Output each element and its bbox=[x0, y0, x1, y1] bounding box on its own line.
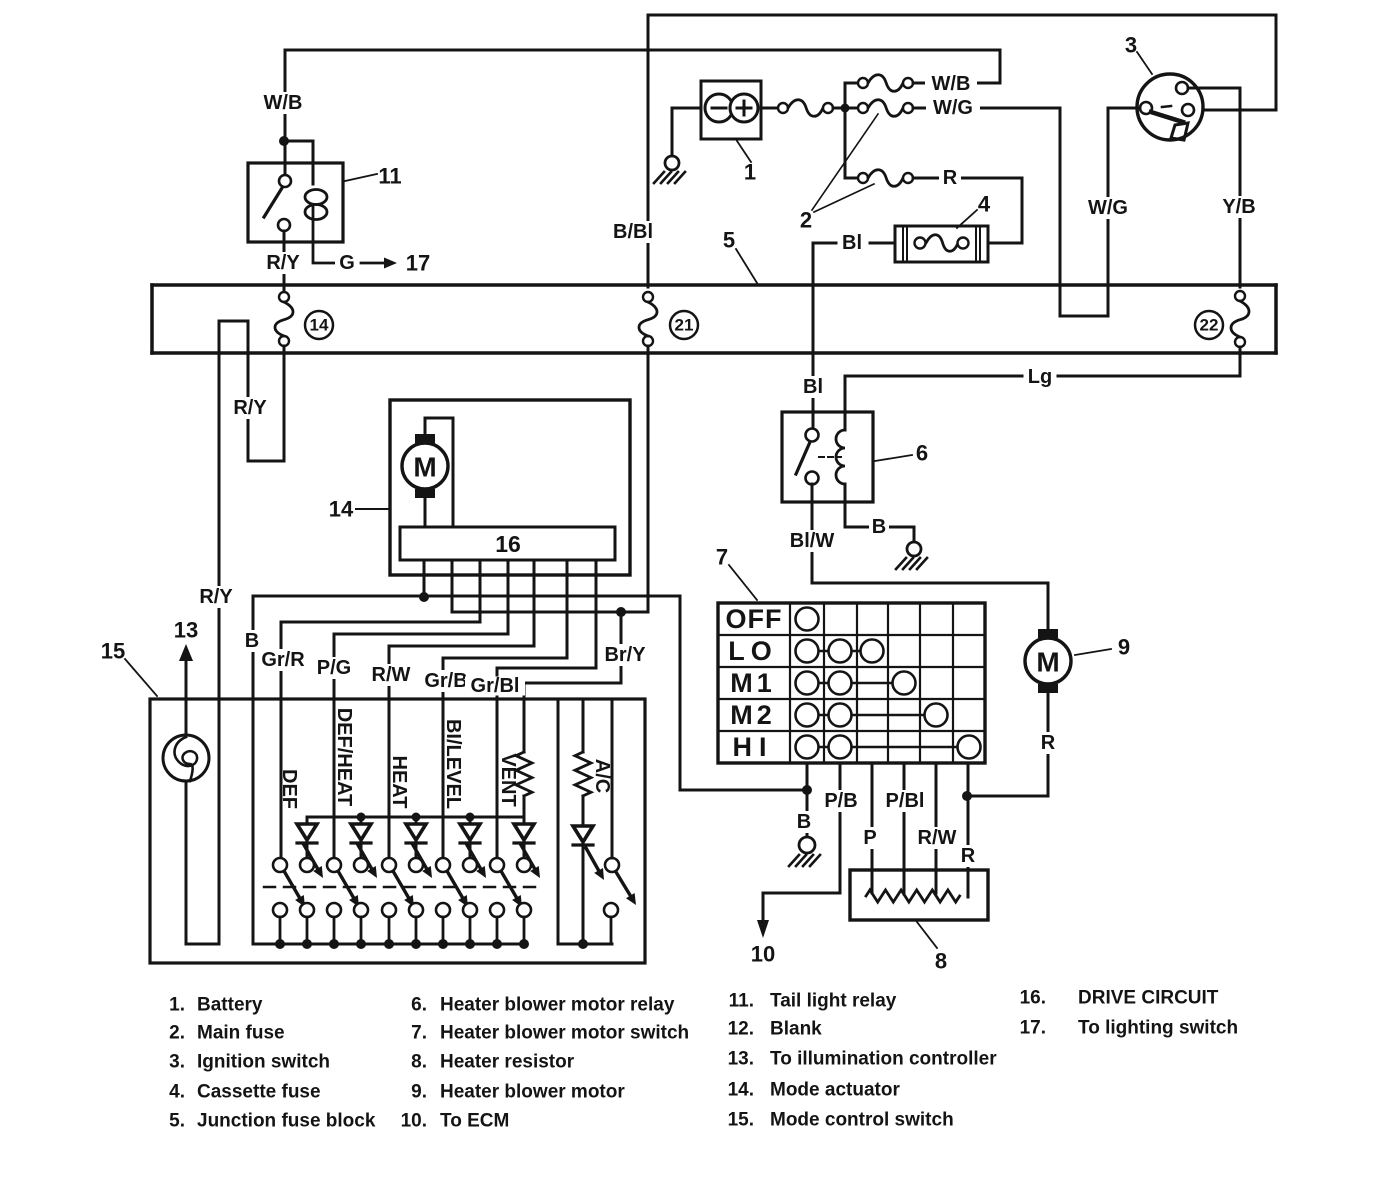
svg-text:Battery: Battery bbox=[197, 995, 263, 1016]
svg-text:2: 2 bbox=[800, 208, 812, 233]
svg-text:A/C: A/C bbox=[591, 759, 613, 793]
svg-text:HEAT: HEAT bbox=[388, 756, 410, 809]
svg-text:R: R bbox=[961, 845, 976, 867]
svg-text:W/G: W/G bbox=[1088, 197, 1128, 219]
svg-text:5: 5 bbox=[723, 228, 735, 253]
svg-text:7: 7 bbox=[716, 545, 728, 570]
svg-text:Mode control switch: Mode control switch bbox=[770, 1110, 954, 1131]
svg-text:Heater blower motor: Heater blower motor bbox=[440, 1082, 625, 1103]
svg-text:14: 14 bbox=[329, 497, 354, 522]
svg-text:Heater blower motor relay: Heater blower motor relay bbox=[440, 995, 675, 1016]
svg-text:M: M bbox=[413, 452, 436, 483]
svg-text:LO: LO bbox=[728, 636, 778, 666]
svg-text:W/B: W/B bbox=[264, 92, 303, 114]
svg-text:Gr/R: Gr/R bbox=[261, 649, 305, 671]
svg-text:W/B: W/B bbox=[932, 73, 971, 95]
svg-text:DEF/HEAT: DEF/HEAT bbox=[333, 708, 355, 807]
svg-text:1.: 1. bbox=[169, 995, 185, 1016]
svg-text:Ignition switch: Ignition switch bbox=[197, 1052, 330, 1073]
svg-text:5.: 5. bbox=[169, 1111, 185, 1132]
svg-text:R/Y: R/Y bbox=[233, 397, 267, 419]
svg-text:14.: 14. bbox=[728, 1080, 754, 1101]
svg-text:3: 3 bbox=[1125, 33, 1137, 58]
svg-text:1: 1 bbox=[744, 160, 756, 185]
svg-text:R/Y: R/Y bbox=[266, 252, 300, 274]
svg-text:HI: HI bbox=[733, 732, 774, 762]
svg-text:Br/Y: Br/Y bbox=[604, 644, 646, 666]
svg-text:B: B bbox=[872, 516, 886, 538]
svg-text:R: R bbox=[1041, 732, 1056, 754]
svg-text:B/Bl: B/Bl bbox=[613, 221, 653, 243]
svg-text:14: 14 bbox=[310, 316, 329, 335]
svg-text:4: 4 bbox=[978, 192, 991, 217]
svg-text:6: 6 bbox=[916, 441, 928, 466]
svg-text:13.: 13. bbox=[728, 1049, 754, 1070]
svg-text:3.: 3. bbox=[169, 1052, 185, 1073]
svg-text:11: 11 bbox=[378, 164, 401, 189]
svg-text:10: 10 bbox=[751, 942, 775, 967]
svg-text:R/W: R/W bbox=[372, 664, 411, 686]
svg-text:G: G bbox=[339, 252, 355, 274]
svg-text:DRIVE CIRCUIT: DRIVE CIRCUIT bbox=[1078, 988, 1219, 1009]
svg-text:Heater blower motor switch: Heater blower motor switch bbox=[440, 1023, 689, 1044]
svg-text:Bl/W: Bl/W bbox=[790, 530, 835, 552]
svg-text:P: P bbox=[863, 827, 876, 849]
svg-text:M1: M1 bbox=[730, 668, 776, 698]
svg-text:17.: 17. bbox=[1020, 1018, 1046, 1039]
svg-text:Y/B: Y/B bbox=[1222, 196, 1255, 218]
svg-text:R/W: R/W bbox=[918, 827, 957, 849]
svg-text:Main fuse: Main fuse bbox=[197, 1023, 285, 1044]
svg-text:Blank: Blank bbox=[770, 1019, 822, 1040]
svg-text:2.: 2. bbox=[169, 1023, 185, 1044]
svg-text:8: 8 bbox=[935, 949, 947, 974]
svg-text:21: 21 bbox=[675, 316, 694, 335]
svg-text:9.: 9. bbox=[411, 1082, 427, 1103]
svg-text:B: B bbox=[245, 630, 259, 652]
svg-text:9: 9 bbox=[1118, 635, 1130, 660]
svg-text:R: R bbox=[943, 167, 958, 189]
svg-text:Gr/Bl: Gr/Bl bbox=[471, 675, 520, 697]
svg-text:Heater resistor: Heater resistor bbox=[440, 1052, 575, 1073]
svg-text:M: M bbox=[1036, 647, 1059, 678]
svg-text:Junction fuse block: Junction fuse block bbox=[197, 1111, 376, 1132]
svg-text:DEF: DEF bbox=[278, 769, 300, 809]
svg-text:16.: 16. bbox=[1020, 988, 1046, 1009]
svg-text:P/B: P/B bbox=[824, 790, 857, 812]
svg-text:BI/LEVEL: BI/LEVEL bbox=[442, 719, 464, 809]
svg-text:17: 17 bbox=[406, 251, 430, 276]
svg-text:11.: 11. bbox=[729, 991, 754, 1012]
svg-text:7.: 7. bbox=[411, 1023, 427, 1044]
svg-text:4.: 4. bbox=[169, 1082, 185, 1103]
svg-text:VENT: VENT bbox=[497, 753, 519, 806]
svg-text:12.: 12. bbox=[728, 1019, 754, 1040]
svg-text:W/G: W/G bbox=[933, 97, 973, 119]
svg-text:13: 13 bbox=[174, 618, 198, 643]
svg-text:8.: 8. bbox=[411, 1052, 427, 1073]
svg-text:P/Bl: P/Bl bbox=[886, 790, 925, 812]
svg-text:To lighting switch: To lighting switch bbox=[1078, 1018, 1238, 1039]
svg-text:Gr/B: Gr/B bbox=[424, 670, 467, 692]
svg-text:6.: 6. bbox=[411, 995, 427, 1016]
svg-text:Tail light relay: Tail light relay bbox=[770, 991, 897, 1012]
svg-text:To ECM: To ECM bbox=[440, 1111, 509, 1132]
svg-text:Lg: Lg bbox=[1028, 366, 1052, 388]
svg-text:22: 22 bbox=[1200, 316, 1219, 335]
svg-text:OFF: OFF bbox=[726, 604, 783, 634]
svg-text:P/G: P/G bbox=[317, 657, 351, 679]
svg-text:M2: M2 bbox=[730, 700, 776, 730]
svg-text:To illumination controller: To illumination controller bbox=[770, 1049, 997, 1070]
svg-text:Cassette fuse: Cassette fuse bbox=[197, 1082, 321, 1103]
svg-text:16: 16 bbox=[495, 531, 521, 557]
svg-text:15: 15 bbox=[101, 639, 125, 664]
svg-text:15.: 15. bbox=[728, 1110, 754, 1131]
svg-text:Mode actuator: Mode actuator bbox=[770, 1080, 900, 1101]
svg-text:Bl: Bl bbox=[842, 232, 862, 254]
svg-text:B: B bbox=[797, 811, 811, 833]
svg-text:Bl: Bl bbox=[803, 376, 823, 398]
svg-text:R/Y: R/Y bbox=[199, 586, 233, 608]
svg-text:10.: 10. bbox=[401, 1111, 427, 1132]
